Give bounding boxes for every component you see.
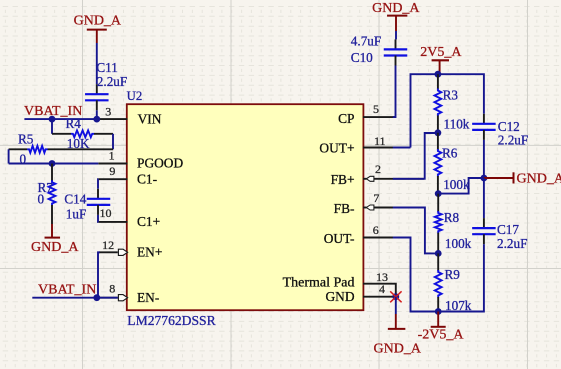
wire R7 top lead [51, 164, 53, 182]
svg-text:R9: R9 [445, 267, 461, 282]
svg-text:1: 1 [109, 149, 115, 163]
capacitor C14 bottom lead [97, 205, 99, 215]
wire R6 bottom lead [437, 176, 439, 194]
wire C12 to GND node [483, 140, 485, 178]
wire C17 bottom link [483, 244, 485, 303]
svg-text:3: 3 [105, 105, 111, 119]
svg-text:2.2uF: 2.2uF [497, 236, 527, 251]
svg-text:2V5_A: 2V5_A [420, 45, 462, 60]
svg-text:C10: C10 [351, 50, 373, 65]
wire R5 left drop [8, 149, 10, 163]
pin 13 stub [363, 283, 395, 285]
junction R8/R9/FB- [435, 250, 442, 257]
svg-text:100k: 100k [445, 236, 472, 251]
resistor R3 [435, 89, 442, 117]
grid major lines (decorative) [82, 0, 84, 369]
wire R7 bottom lead [51, 205, 53, 224]
power port GND_A (top right) stub [395, 16, 397, 31]
junction OUT- rail/R9 [435, 308, 442, 315]
resistor R6 [435, 149, 442, 177]
pin 7 stub [363, 207, 367, 209]
svg-text:GND: GND [325, 289, 354, 304]
wire VBAT_IN rail [24, 118, 98, 120]
resistor R7 [49, 180, 56, 205]
op-amp/IC U2 body (LM27762DSSR) [127, 104, 364, 310]
wire C1- to C14 [97, 179, 99, 189]
resistor R4 [71, 130, 94, 137]
svg-text:GND_A: GND_A [31, 240, 79, 255]
svg-text:OUT-: OUT- [324, 231, 355, 246]
svg-text:9: 9 [109, 164, 115, 178]
wire OUT- rail [393, 238, 484, 312]
wire R8 top lead [437, 194, 439, 212]
pin 2 stub [363, 178, 367, 180]
svg-text:5: 5 [373, 102, 379, 116]
pin 7 input triangle [366, 205, 374, 210]
capacitor C17 bottom lead [483, 234, 485, 244]
capacitor C11 top lead [96, 84, 98, 94]
pin 1 stub [98, 163, 127, 165]
svg-text:R5: R5 [18, 132, 34, 147]
svg-text:LM27762DSSR: LM27762DSSR [127, 313, 216, 328]
svg-text:110k: 110k [444, 117, 470, 132]
svg-text:VBAT_IN: VBAT_IN [38, 283, 96, 298]
capacitor C10 top lead [395, 39, 397, 49]
wire FB- dropper [393, 208, 438, 254]
svg-text:6: 6 [373, 223, 379, 237]
svg-text:EN-: EN- [137, 290, 159, 305]
svg-text:R8: R8 [444, 210, 460, 225]
capacitor C10 bottom lead [395, 56, 397, 66]
pin 12 input triangle [118, 249, 127, 255]
power port GND_A (bottom) stub [395, 314, 397, 329]
svg-text:R6: R6 [442, 146, 458, 161]
svg-text:2.2uF: 2.2uF [97, 74, 127, 89]
capacitor C12 [472, 123, 496, 125]
wire C11 to VBAT rail [96, 110, 98, 119]
capacitor C12 bottom lead [483, 130, 485, 140]
svg-text:C1+: C1+ [137, 214, 160, 229]
resistor R9 [435, 270, 442, 298]
wire mid-divider to GND port [438, 178, 484, 194]
svg-text:EN+: EN+ [137, 245, 162, 260]
svg-text:7: 7 [373, 191, 379, 205]
wire C10 to CP [393, 66, 396, 118]
svg-text:R3: R3 [443, 87, 459, 102]
wire PGOOD rail [9, 163, 99, 165]
junction GND node [481, 175, 488, 182]
power port -2V5_A bar [431, 326, 446, 328]
svg-text:12: 12 [102, 238, 114, 252]
pin 3 stub [98, 118, 127, 120]
pin 8 input triangle [118, 295, 127, 301]
svg-text:GND_A: GND_A [517, 172, 561, 187]
svg-text:-2V5_A: -2V5_A [418, 328, 465, 343]
svg-text:100k: 100k [443, 177, 470, 192]
power port -2V5_A stub [437, 312, 439, 327]
power port 2V5_A bar [432, 59, 449, 61]
svg-text:GND_A: GND_A [74, 14, 122, 29]
wire C17 top link [483, 178, 485, 218]
wire VBAT_IN bottom rail [32, 297, 118, 299]
svg-text:VIN: VIN [138, 111, 162, 126]
power port GND_A (below R7) bar [45, 237, 61, 239]
junction R3/R6/FB+ [435, 129, 442, 136]
wire FB+ riser [393, 133, 438, 179]
svg-text:R4: R4 [66, 116, 82, 131]
wire R4 left lead [52, 133, 71, 135]
wire R9 top lead [437, 253, 439, 271]
junction GND pin node [392, 293, 399, 300]
junction EN column/VBAT [93, 294, 100, 301]
junction PGOOD/R7 [49, 160, 56, 167]
pin 2 input triangle [366, 176, 374, 181]
svg-text:FB+: FB+ [331, 172, 355, 187]
power port 2V5_A stub [439, 60, 441, 72]
power port GND_A (below R7) stub [51, 224, 53, 238]
resistor R5 [27, 146, 47, 153]
power port GND_A (top left) stub [96, 30, 98, 43]
wire R6 top lead [437, 133, 439, 150]
svg-text:4.7uF: 4.7uF [351, 34, 381, 49]
svg-text:11: 11 [374, 134, 386, 148]
wire OUT+ link [393, 147, 411, 149]
svg-text:10: 10 [100, 206, 112, 220]
svg-text:0: 0 [38, 192, 45, 207]
pin 6 stub [363, 237, 410, 239]
power port GND_A (bottom) bar [388, 328, 406, 330]
capacitor C11 bottom lead [96, 100, 98, 110]
capacitor C11 [85, 93, 109, 95]
junction VBAT/C11 [93, 116, 100, 123]
svg-text:CP: CP [338, 111, 354, 126]
power port GND_A (right) bar [513, 172, 515, 183]
wire pad13 to pin4 node [395, 284, 396, 297]
pin 12 stub [99, 251, 118, 253]
wire GND_A to C11 [96, 43, 98, 84]
svg-text:PGOOD: PGOOD [137, 156, 183, 171]
pin 11 stub [363, 147, 410, 149]
wire 2V5_A rail [411, 74, 484, 147]
wire GND pin drop [395, 297, 397, 314]
wire GND_A to C10 [395, 31, 397, 39]
svg-text:C1-: C1- [137, 171, 157, 186]
power port GND_A (right) stub [484, 177, 514, 179]
wire R3 bottom lead [437, 116, 439, 133]
junction VBAT/R4 [49, 116, 56, 123]
svg-text:OUT+: OUT+ [319, 141, 354, 156]
capacitor C12 top lead [483, 114, 485, 124]
wire R4 right drop [112, 134, 114, 150]
svg-text:FB-: FB- [334, 201, 355, 216]
wire R5 left lead [9, 148, 28, 150]
wire R8 bottom lead [437, 233, 439, 254]
power port GND_A (top left) bar [87, 29, 107, 31]
svg-text:GND_A: GND_A [372, 1, 420, 16]
no-ERC cross marker [390, 291, 401, 302]
capacitor C14 top lead [97, 189, 99, 199]
pin 4 stub [363, 296, 396, 298]
power port GND_A (top right) bar [387, 15, 407, 17]
svg-text:2.2uF: 2.2uF [498, 133, 528, 148]
pin 8 stub [97, 297, 118, 299]
capacitor C17 [472, 227, 496, 229]
wire R5-R4 link [48, 148, 114, 150]
pin 9 stub [98, 178, 127, 180]
capacitor C10 [384, 48, 408, 50]
svg-text:U2: U2 [127, 89, 143, 103]
wire R4 right lead [94, 133, 113, 135]
svg-text:GND_A: GND_A [374, 341, 422, 356]
svg-text:1uF: 1uF [66, 207, 87, 222]
pin 5 stub [363, 116, 395, 118]
junction R6/R8/GND [435, 190, 442, 197]
svg-text:2: 2 [375, 162, 381, 176]
svg-text:C17: C17 [497, 222, 519, 237]
junction 2V5_A/R3 [435, 71, 442, 78]
wire R3 top lead [437, 74, 439, 89]
wire C14 to C1+ [97, 215, 99, 222]
pin 10 stub [98, 221, 127, 223]
svg-text:8: 8 [109, 282, 115, 296]
wire EN+ to EN- column [98, 252, 100, 297]
resistor R8 [435, 211, 442, 233]
wire R4 left drop [51, 119, 53, 134]
svg-text:C14: C14 [64, 192, 86, 207]
capacitor C17 top lead [483, 218, 485, 228]
capacitor C14 [87, 198, 111, 200]
wire R9 bottom lead [437, 297, 439, 312]
